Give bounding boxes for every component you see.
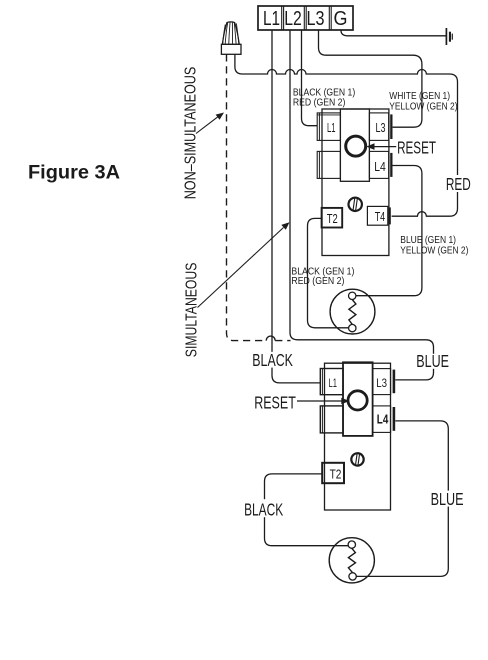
lower reset button (348, 391, 367, 410)
white gap + label RED (on red feed line) (444, 174, 473, 194)
svg-text:L1: L1 (263, 8, 280, 30)
svg-text:RED (GEN 2): RED (GEN 2) (293, 97, 346, 108)
lower terminal L4 (373, 406, 396, 433)
svg-text:L4: L4 (377, 413, 389, 427)
svg-text:BLACK: BLACK (244, 500, 283, 520)
lower left terminal row2 (unlabelled) (320, 406, 343, 433)
svg-text:WHITE (GEN 1): WHITE (GEN 1) (389, 91, 450, 102)
wire: block L1 down to lower stat L1 (272, 30, 320, 383)
wire: nut feed to RED line to T4 (with hops) (235, 54, 458, 216)
upper reset button (346, 136, 366, 156)
upper screw (348, 197, 363, 212)
upper left terminal row2 (unlabelled) (317, 151, 340, 178)
svg-text:Figure 3A: Figure 3A (28, 162, 120, 184)
white gap + label BLUE (lower, on L4 wire) (429, 489, 466, 509)
wire: block L2 to upper stat L1 (302, 30, 318, 126)
wire: upper T2 to upper element bottom (308, 218, 349, 327)
lower screw (350, 452, 364, 466)
white gap + label BLACK (mid, on L1 feed) (251, 350, 296, 370)
label BLACK (GEN 1) / RED (GEN 2) upper (293, 88, 355, 109)
svg-text:T2: T2 (330, 467, 342, 482)
lower reset arrow (297, 398, 350, 405)
arrow to dashed wire (non-simultaneous) (196, 113, 224, 134)
wire: upper L4 to upper element top (356, 166, 422, 296)
dashed wire: non-simultaneous (227, 54, 267, 340)
upper terminal L4 (369, 151, 392, 178)
ground symbol (446, 28, 452, 45)
lower heating element (329, 538, 374, 583)
svg-text:L4: L4 (374, 160, 386, 174)
wire: block L3 to upper stat L3 (319, 30, 422, 127)
white gap + label BLUE (mid, on junction feed) (415, 351, 451, 371)
svg-text:L1: L1 (329, 376, 338, 390)
svg-text:RED: RED (446, 174, 471, 194)
terminal block (258, 6, 353, 30)
svg-text:L3: L3 (307, 8, 325, 30)
svg-text:T2: T2 (327, 212, 338, 226)
svg-text:L3: L3 (376, 121, 386, 135)
wire: lower T2 to lower element top (265, 474, 349, 546)
svg-text:RESET: RESET (254, 392, 296, 412)
label BLUE (GEN 1) / YELLOW (GEN 2) (400, 235, 468, 257)
upper terminal L1 (317, 113, 340, 140)
svg-text:YELLOW (GEN 2): YELLOW (GEN 2) (400, 246, 468, 257)
upper thermostat body (322, 109, 389, 256)
upper terminal L3 (369, 113, 392, 140)
upper stat center column (340, 109, 369, 181)
wire: lower L4 to lower element bottom (356, 421, 448, 577)
lower thermostat center column (343, 362, 373, 436)
svg-text:T4: T4 (375, 210, 386, 224)
wire nut (221, 22, 241, 54)
lower terminal L3 (373, 369, 396, 395)
lower terminal T2 (322, 463, 344, 483)
svg-text:BLUE (GEN 1): BLUE (GEN 1) (400, 235, 456, 246)
label BLACK (GEN 1) / RED (GEN 2) mid (291, 266, 354, 287)
svg-text:L3: L3 (376, 376, 387, 390)
label WHITE (GEN 1) / YELLOW (GEN 2) (389, 91, 457, 113)
svg-text:L1: L1 (327, 121, 336, 135)
svg-text:BLACK: BLACK (252, 350, 293, 370)
svg-text:BLUE: BLUE (416, 351, 449, 371)
lower terminal L1 (320, 369, 343, 395)
svg-text:RESET: RESET (397, 137, 436, 157)
upper terminal T4 (367, 206, 390, 225)
upper terminal T2 (322, 208, 343, 228)
white gap + label BLACK (lower, on T2 wire) (242, 499, 285, 519)
svg-text:RED (GEN 2): RED (GEN 2) (291, 276, 344, 287)
svg-text:YELLOW (GEN 2): YELLOW (GEN 2) (389, 102, 457, 113)
lower thermostat body (325, 363, 391, 510)
svg-text:BLUE: BLUE (431, 489, 464, 509)
upper heating element (330, 289, 375, 334)
wire: block L2 to lower junction (simultaneous feed) (290, 30, 434, 380)
upper reset arrow (366, 143, 396, 150)
svg-text:SIMULTANEOUS: SIMULTANEOUS (184, 263, 201, 358)
arrow to solid wire (simultaneous) (198, 222, 290, 307)
svg-text:G: G (334, 8, 348, 30)
svg-text:L2: L2 (284, 8, 302, 30)
wire G to ground (341, 30, 446, 36)
